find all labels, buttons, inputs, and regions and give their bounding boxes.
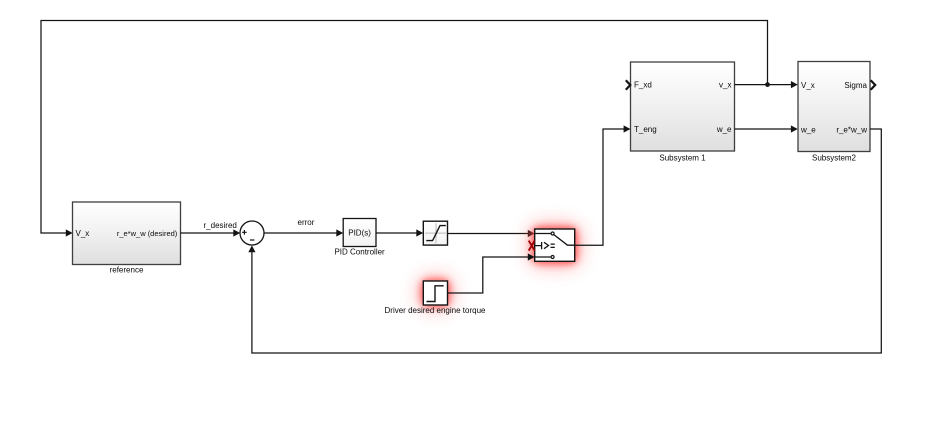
svg-text:v_x: v_x — [719, 81, 731, 90]
block: reference — [73, 202, 181, 275]
svg-text:error: error — [298, 218, 315, 227]
unconnected input chevron F_xd — [626, 80, 631, 89]
wire: Switch output to Subsystem 1 T_eng — [575, 125, 631, 245]
wire: Sum to PID Controller — [264, 229, 343, 236]
svg-text:r_desired: r_desired — [204, 221, 237, 230]
svg-text:r_e*w_w: r_e*w_w — [836, 126, 867, 135]
svg-text:V_x: V_x — [76, 229, 90, 238]
wire: top feedback loop (v_x junction to reference V_x input) — [41, 21, 768, 237]
wire: Step output to Switch input 3 — [448, 253, 535, 293]
wire: Subsystem 1 w_e to Subsystem2 w_e — [735, 125, 798, 132]
highlight glow around Step — [420, 278, 452, 309]
block: PID Controller — [334, 219, 385, 257]
svg-text:w_e: w_e — [800, 126, 816, 135]
wire: reference output to Sum — [181, 229, 241, 236]
block: Subsystem2 — [798, 62, 875, 163]
svg-text:T_eng: T_eng — [634, 125, 657, 134]
svg-text:PID Controller: PID Controller — [334, 248, 385, 257]
unconnected port mark (red X) on Switch control input — [529, 241, 535, 251]
svg-text:reference: reference — [110, 266, 144, 275]
block: Switch — [529, 229, 575, 261]
wire: PID Controller to Saturation — [376, 229, 423, 236]
svg-text:F_xd: F_xd — [634, 81, 652, 90]
wire: Saturation to Switch input 1 — [448, 230, 535, 237]
highlight glow around Switch — [531, 225, 580, 266]
svg-text:Sigma: Sigma — [844, 81, 867, 90]
block: Step (Driver desired engine torque) — [385, 281, 486, 315]
svg-text:Subsystem 1: Subsystem 1 — [659, 154, 706, 163]
svg-text:Subsystem2: Subsystem2 — [812, 154, 857, 163]
svg-text:w_e: w_e — [716, 125, 732, 134]
wire: Subsystem 1 v_x to Subsystem2 V_x — [735, 81, 798, 88]
unconnected output chevron Sigma — [871, 80, 876, 89]
svg-text:PID(s): PID(s) — [348, 229, 371, 238]
svg-text:r_e*w_w (desired): r_e*w_w (desired) — [117, 229, 178, 238]
svg-text:Driver desired engine torque: Driver desired engine torque — [385, 306, 486, 315]
summing junction Sum — [240, 221, 264, 245]
svg-text:V_x: V_x — [801, 81, 815, 90]
block: Saturation — [423, 221, 447, 245]
junction: v_x node dot — [765, 82, 770, 87]
wire: bottom feedback (r_e*w_w to Sum minus input) — [248, 129, 881, 353]
block: Subsystem 1 — [626, 62, 735, 163]
